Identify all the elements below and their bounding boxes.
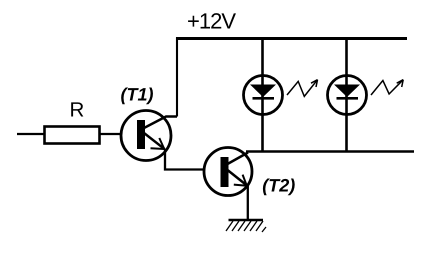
svg-text:(T2): (T2) bbox=[262, 175, 295, 195]
svg-text:(T1): (T1) bbox=[121, 85, 154, 105]
svg-text:+12V: +12V bbox=[187, 9, 236, 34]
svg-text:R: R bbox=[70, 99, 85, 122]
